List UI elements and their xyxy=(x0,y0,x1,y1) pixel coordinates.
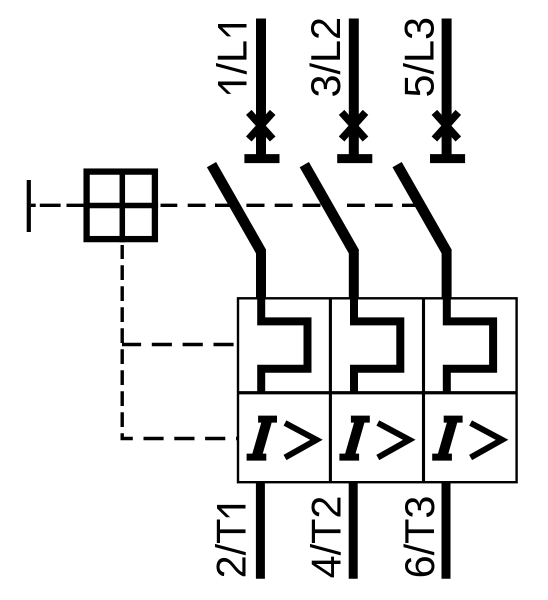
svg-text:3/L2: 3/L2 xyxy=(303,17,349,98)
svg-text:5/L3: 5/L3 xyxy=(397,17,443,98)
svg-text:4/T2: 4/T2 xyxy=(304,496,350,579)
svg-text:6/T3: 6/T3 xyxy=(397,496,443,579)
svg-text:/L: /L xyxy=(210,40,256,75)
svg-text:2/T: 2/T xyxy=(209,519,255,579)
